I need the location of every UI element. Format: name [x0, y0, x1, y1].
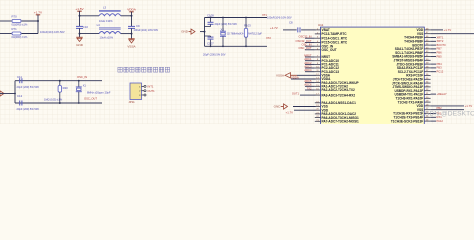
- svg-text:C8: C8: [289, 20, 293, 24]
- svg-text:+1.7V: +1.7V: [270, 26, 278, 30]
- svg-text:VSSA: VSSA: [127, 44, 136, 48]
- pin 3 of JP11: [142, 94, 145, 96]
- net label OSC32_OUT: [305, 42, 315, 44]
- svg-text:PB5: PB5: [437, 54, 443, 58]
- svg-text:OSC_OUT: OSC_OUT: [322, 48, 337, 52]
- wire L4 to rail: [121, 33, 132, 35]
- pin PA1-ADC1-T2CH2: [315, 85, 321, 87]
- svg-text:1MΩ (105) ±1%: 1MΩ (105) ±1%: [44, 97, 63, 101]
- wire to resistor R70: [0, 20, 12, 22]
- net label +1.7V at VDD: [431, 29, 443, 31]
- svg-text:CSDN @DESKTOP: CSDN @DESKTOP: [420, 111, 474, 118]
- svg-text:VDDA: VDDA: [127, 8, 137, 12]
- pin SCL1-T4CH1-PB6F: [424, 52, 430, 54]
- net label RX1: [431, 116, 436, 118]
- net label ADC6: [305, 85, 315, 87]
- net label PB3: [431, 67, 436, 69]
- svg-text:JP11: JP11: [129, 100, 136, 104]
- svg-text:+1.7V: +1.7V: [286, 111, 294, 115]
- wire +1.7V vertical: [37, 15, 39, 34]
- svg-text:PB6: PB6: [437, 51, 443, 55]
- pin VSS: [424, 33, 430, 35]
- power port VSSA below C9: [127, 39, 136, 49]
- net label PB5: [431, 56, 436, 58]
- pin JTCK-SWCLK-PA14F: [424, 82, 430, 84]
- svg-text:C10: C10: [83, 25, 89, 29]
- net label ADC2: [305, 63, 315, 65]
- power port VSSA arrow: [297, 74, 316, 76]
- svg-text:T1CH3E-SCK2-PB13F: T1CH3E-SCK2-PB13F: [391, 119, 423, 123]
- net label ADC3: [305, 67, 315, 69]
- pin VSSA: [315, 74, 321, 76]
- svg-text:BOOT0: BOOT0: [437, 43, 447, 47]
- svg-text:8MHz ±20ppm 20pF: 8MHz ±20ppm 20pF: [87, 90, 111, 94]
- pin T1CH1E-RX3-PB15F: [424, 113, 430, 115]
- pin VDD: [424, 105, 430, 107]
- pin PC3-ADC13: [315, 71, 321, 73]
- svg-text:OUT1: OUT1: [292, 91, 300, 95]
- net label +1.7V bottom right: [431, 105, 464, 107]
- capacitor C8: [297, 27, 299, 32]
- pin PA5-ADC5-SCK1-DAC2: [315, 113, 321, 115]
- pin VSS: [315, 106, 321, 108]
- pin PC0-ADC10: [315, 60, 321, 62]
- svg-text:PA7-ADC7-T3CH2-MOSI1: PA7-ADC7-T3CH2-MOSI1: [322, 119, 360, 123]
- svg-text:100uF(104) 10% 50V: 100uF(104) 10% 50V: [267, 15, 292, 19]
- svg-text:PA3-ADC3-T2CH4-RX2: PA3-ADC3-T2CH4-RX2: [322, 93, 356, 97]
- svg-text:X1: X1: [83, 83, 87, 87]
- svg-text:+RELAY: +RELAY: [437, 92, 447, 96]
- pin VSS: [424, 109, 430, 111]
- wire to resistor R71: [0, 33, 12, 35]
- svg-text:PA12: PA12: [437, 119, 444, 123]
- wire crystal top node: [15, 80, 102, 82]
- capacitor C9: [128, 25, 135, 27]
- net label ADC1: [305, 60, 315, 62]
- wire L3 to VDDA rail: [121, 15, 132, 17]
- wire VSS to edge: [431, 33, 474, 35]
- pin JTDO-SCK3-PB3F: [424, 63, 430, 65]
- svg-text:100uF(104) 10% 50V: 100uF(104) 10% 50V: [134, 28, 159, 32]
- power port +1.5V: [75, 7, 84, 13]
- net label +RELAY: [431, 93, 436, 95]
- net label PC12: [431, 71, 436, 73]
- wire crystal bottom node: [205, 45, 268, 47]
- net label +1.7V at VDD pin: [294, 109, 316, 111]
- pin PA3-ADC3-T2CH4-RX2: [315, 94, 321, 96]
- net label XRT2: [431, 40, 436, 42]
- svg-text:PB3: PB3: [437, 66, 443, 70]
- svg-text:U11: U11: [318, 23, 324, 27]
- svg-text:C12: C12: [17, 94, 23, 98]
- IC U11 body: [321, 27, 425, 125]
- node junction +1.7V rail: [37, 20, 39, 22]
- pin 1 of JP11: [142, 85, 145, 87]
- power port VDDA: [127, 8, 137, 14]
- svg-text:INT1: INT1: [148, 85, 154, 89]
- wire C10 to ground: [79, 29, 81, 38]
- wire +1.5V down: [79, 11, 81, 26]
- pin PA4-ADC4-NSS1-DAC1: [315, 102, 321, 104]
- svg-text:XRT2: XRT2: [437, 39, 444, 43]
- wire ground rail: [14, 81, 16, 103]
- pin VDD: [315, 109, 321, 111]
- node junction VDDA: [131, 15, 133, 17]
- wire gnd to rail: [200, 31, 205, 33]
- resistor R20: [59, 81, 61, 86]
- pin SCL2-TX4-PC11F: [424, 71, 430, 73]
- pin NRST: [315, 56, 321, 58]
- ground GND left of crystal block: [181, 29, 195, 34]
- pin T1CH3E-SCK2-PB13F: [424, 120, 430, 122]
- net label PB6: [431, 52, 436, 54]
- svg-text:ADC6: ADC6: [304, 83, 312, 87]
- svg-text:+1.7V: +1.7V: [465, 104, 473, 108]
- net label ADC4: [305, 71, 315, 73]
- svg-text:+1.5V: +1.5V: [75, 7, 84, 11]
- pin JTDI-T2CH1E-PA15F: [424, 78, 430, 80]
- svg-text:OUT1: OUT1: [148, 89, 156, 93]
- svg-text:PB4: PB4: [437, 62, 443, 66]
- pin PA6-ADC6-T3CH1-MISO1: [315, 117, 321, 119]
- svg-text:20pF (200) 5% 50V: 20pF (200) 5% 50V: [203, 53, 226, 57]
- svg-text:R103: R103: [244, 24, 251, 28]
- svg-text:ADC2: ADC2: [304, 61, 312, 65]
- net label PB7: [431, 48, 436, 50]
- pin USBDM-TX1-PA11F: [424, 94, 430, 96]
- pin VDD: [424, 29, 430, 31]
- net label OSC_OUT: [305, 49, 315, 51]
- pin PC15-OSC1_RTC: [315, 42, 321, 44]
- capacitor C10: [76, 25, 83, 27]
- svg-text:XT2: XT2: [266, 36, 271, 40]
- svg-text:R70: R70: [12, 15, 18, 19]
- svg-text:OSC32_OUT: OSC32_OUT: [296, 39, 312, 43]
- pin PC2-ADC12: [315, 67, 321, 69]
- pin T4CH3-PB8F: [424, 40, 430, 42]
- power port +1.7V: [34, 11, 43, 17]
- svg-text:0Ω(0R0) ±1%: 0Ω(0R0) ±1%: [12, 23, 28, 27]
- net label TX1: [431, 113, 436, 115]
- net label OSC_IN: [305, 45, 315, 47]
- net label OSC32_IN: [305, 37, 315, 39]
- pin T1CH2E-TX3-PB14F: [424, 116, 430, 118]
- svg-text:ADC4: ADC4: [304, 68, 312, 72]
- pin PA2-ADC2-T2CH3-TX2: [315, 89, 321, 91]
- svg-text:R20: R20: [63, 86, 69, 90]
- svg-text:10uH ±10%: 10uH ±10%: [100, 35, 114, 39]
- pin SDA2-RX4-PC12F: [424, 67, 430, 69]
- pin OSC_IN: [315, 45, 321, 47]
- svg-text:GND: GND: [274, 105, 282, 109]
- node junction L3 tap: [79, 15, 81, 17]
- svg-text:+1.7V: +1.7V: [444, 28, 452, 32]
- svg-text:PC12: PC12: [437, 70, 444, 74]
- pin T1CH3-RX1-PA10F: [424, 97, 430, 99]
- pin BOOT0: [424, 44, 430, 46]
- svg-text:NRST: NRST: [304, 53, 312, 57]
- svg-text:OSC_IN: OSC_IN: [77, 75, 87, 79]
- pin T1CH2-TX1-PA9F: [424, 101, 430, 103]
- wire +1.7V to C8: [283, 29, 297, 31]
- svg-text:20pF (200) 5% 50V: 20pF (200) 5% 50V: [17, 85, 40, 89]
- pin JTRST-MISO3-PB4F: [424, 59, 430, 61]
- svg-text:GND: GND: [76, 43, 84, 47]
- pin OSC_OUT: [315, 49, 321, 51]
- svg-text:L4: L4: [97, 23, 101, 27]
- net label TX2: [305, 89, 315, 91]
- connector JP11: [130, 83, 142, 100]
- svg-text:20pF (200) 5% 50V: 20pF (200) 5% 50V: [17, 107, 40, 111]
- svg-text:ADC3: ADC3: [304, 64, 312, 68]
- crystal X1: [78, 81, 80, 87]
- svg-text:PA2-ADC2-T2CH3-TX2: PA2-ADC2-T2CH3-TX2: [322, 88, 356, 92]
- svg-text:ADC1: ADC1: [304, 57, 312, 61]
- pin SDA1-T4CH2-PB7F: [424, 48, 430, 50]
- net label XRT1: [431, 37, 436, 39]
- svg-text:VDDA: VDDA: [291, 75, 299, 79]
- ground GND left edge: [0, 91, 4, 96]
- net label VDDA: [291, 78, 316, 80]
- pin SMBA1-MOSI3-PB5F: [424, 56, 430, 58]
- resistor R71: [12, 32, 21, 35]
- svg-text:TX2: TX2: [307, 86, 312, 90]
- svg-text:VSSA: VSSA: [276, 73, 284, 77]
- svg-text:OSC_OUT: OSC_OUT: [299, 46, 312, 50]
- node junction L4 tap: [79, 33, 81, 35]
- svg-text:OSC_IN: OSC_IN: [301, 43, 311, 47]
- wire R71 to rail: [22, 33, 39, 35]
- pin JTMS-SWDIO-PA13F: [424, 86, 430, 88]
- pin 2 of JP11: [142, 90, 145, 92]
- svg-text:GND: GND: [181, 30, 189, 34]
- wire to inductor L3: [80, 15, 100, 17]
- pin T4CH4-PB9F: [424, 37, 430, 39]
- svg-text:OSC_OUT: OSC_OUT: [84, 97, 97, 101]
- wire VDDA down: [131, 12, 133, 26]
- svg-text:20pF (200) 5% 50V: 20pF (200) 5% 50V: [215, 22, 238, 26]
- svg-text:100uF(104) 10% 50V: 100uF(104) 10% 50V: [40, 30, 65, 34]
- net label OUT1 at PA3: [300, 94, 316, 96]
- svg-text:PB2: PB2: [437, 106, 443, 110]
- pin RX3-PC10F: [424, 75, 430, 77]
- pin VDDA: [315, 78, 321, 80]
- svg-text:+1.7V: +1.7V: [34, 11, 43, 15]
- svg-text:X2: X2: [221, 27, 225, 31]
- wire crystal bottom node: [15, 102, 102, 104]
- svg-text:XRT1: XRT1: [437, 35, 444, 39]
- svg-text:R71: R71: [12, 27, 18, 31]
- svg-text:ADC5: ADC5: [304, 79, 312, 83]
- net label NRST: [305, 56, 315, 58]
- wire crystal top node: [205, 17, 268, 19]
- svg-text:PB7: PB7: [437, 47, 443, 51]
- pin USBDP-RX1-PA12F: [424, 90, 430, 92]
- svg-text:C9: C9: [136, 24, 140, 28]
- pin PA0-ADC0-T2CH1-WKUP: [315, 82, 321, 84]
- net label PB4: [431, 63, 436, 65]
- pin VBAT: [315, 29, 321, 31]
- net label ADC5: [305, 82, 315, 84]
- wire to inductor L4: [80, 33, 100, 35]
- svg-text:OSC32_IN: OSC32_IN: [299, 35, 312, 39]
- resistor R70: [12, 20, 21, 23]
- net label PA12: [431, 120, 436, 122]
- ground GND below C10: [76, 37, 84, 47]
- svg-text:10uH ±10%: 10uH ±10%: [99, 19, 113, 23]
- wire R70 to junction: [22, 20, 39, 22]
- wire VSS bottom to edge: [431, 109, 464, 111]
- wire ground rail vertical: [204, 18, 206, 47]
- svg-text:0Ω(0R0) ±1%: 0Ω(0R0) ±1%: [12, 35, 28, 39]
- node junction L4 out: [131, 33, 133, 35]
- wire C9 to ground: [131, 29, 133, 39]
- pin PA7-ADC7-T3CH2-MOSI1: [315, 120, 321, 122]
- title 短路测量继电器控制 (drawn): [118, 67, 170, 72]
- net label BOOT0: [431, 44, 436, 46]
- svg-text:L3: L3: [103, 5, 107, 9]
- pin PC14-OSC1_RTC: [315, 37, 321, 39]
- pin PC1-ADC11: [315, 63, 321, 65]
- wire C8 to VBAT pin: [301, 29, 315, 31]
- ground GND at VSS pin: [293, 106, 316, 108]
- pin PC13-TAMP-RTC: [315, 33, 321, 35]
